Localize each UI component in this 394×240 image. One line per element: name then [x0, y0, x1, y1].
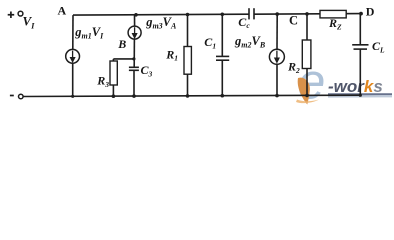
- svg-text:C1: C1: [204, 35, 216, 50]
- svg-text:D: D: [366, 5, 375, 19]
- svg-text:A: A: [58, 4, 67, 18]
- svg-text:C3: C3: [141, 63, 153, 78]
- svg-text:gm2VB: gm2VB: [234, 34, 266, 50]
- svg-text:B: B: [117, 37, 126, 51]
- svg-text:R3: R3: [96, 73, 109, 88]
- svg-text:gm1VI: gm1VI: [74, 25, 104, 41]
- svg-text:-works: -works: [328, 77, 383, 96]
- svg-text:gm3VA: gm3VA: [145, 15, 177, 31]
- svg-text:R1: R1: [165, 47, 178, 62]
- svg-text:CL: CL: [372, 39, 385, 54]
- svg-text:VI: VI: [23, 14, 36, 31]
- svg-text:C: C: [289, 14, 298, 28]
